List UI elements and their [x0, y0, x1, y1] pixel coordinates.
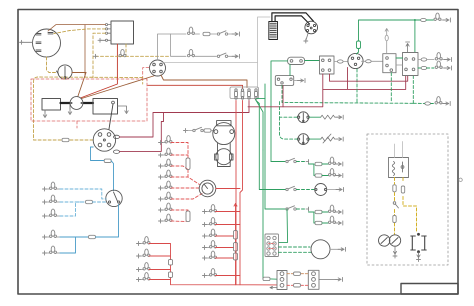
wire tan dashed F to control box: [54, 29, 105, 34]
gray lead from switch to top right: [164, 17, 271, 63]
battery cable (thick): [61, 102, 94, 104]
wire red control box down to solenoid: [79, 44, 117, 98]
wire brown vertical bus x85: [84, 25, 86, 77]
wire tan dashed bus y77.5: [34, 77, 143, 140]
wiper box top lead: [385, 29, 388, 54]
battery: [42, 99, 61, 111]
gray circuit: ignition/lighting switch circle: [150, 60, 166, 76]
bulkhead connector block: [265, 234, 279, 257]
battery ground: [44, 110, 46, 113]
headlamp dip row green dashed: [418, 67, 421, 69]
red links inside bulkhead connector: [269, 244, 275, 249]
overdrive solenoid twin circles: [379, 235, 401, 246]
generator G1: [33, 29, 61, 57]
green drop to bulkhead connector: [279, 209, 288, 242]
red dashed tail below box: [76, 121, 78, 128]
arrow lead left socket bottom: [270, 286, 277, 288]
wire brown warning lamp to bus: [72, 72, 86, 74]
panel lamp 1: [297, 112, 309, 123]
wire red flasher to bus: [216, 188, 240, 190]
ignition switch: [348, 53, 363, 68]
headlamp main row: [418, 59, 421, 61]
leads between sockets row3: [287, 284, 308, 286]
wire tan dashed generator to warning lamp: [47, 57, 58, 73]
wire green dashed relay to panel: [282, 85, 413, 103]
HT lead coil to distributor cap (thick pair): [272, 13, 314, 22]
wire maroon distributor lower terminal: [120, 113, 164, 152]
green fuse above ignition switch: [357, 41, 361, 49]
trailer socket right: [308, 270, 319, 289]
red verticals from fuse box: [235, 101, 237, 285]
inline fuse: [62, 138, 69, 141]
green dashed ignition drop: [356, 69, 358, 103]
wire brown ignition switch to solenoid: [80, 76, 155, 100]
dip box top feed: [406, 42, 410, 53]
red wires bottom-left cluster: [149, 244, 277, 285]
wire tan dashed fuse to distributor: [70, 139, 93, 141]
headlamp dip relay circle: [106, 190, 122, 206]
green row3: reverse lamps: [265, 84, 285, 209]
control box pins: [105, 24, 111, 42]
wire maroon lighting switch to dip box and down: [323, 74, 406, 89]
yellow chain right: [403, 178, 417, 233]
red dashed harness to flasher: [171, 143, 202, 222]
red dashed boundary box (engine bay): [31, 79, 147, 121]
ignition warning lamp: [57, 65, 73, 79]
wire blue dashed main beam: [60, 189, 106, 199]
leads between sockets row1: [287, 273, 308, 275]
ignition coil (hatched): [269, 22, 278, 40]
wire blue distributor to dip switch: [91, 147, 105, 161]
right lead of right socket: [319, 278, 341, 280]
green verticals from fuse box: [263, 150, 277, 279]
overdrive relay: [389, 158, 409, 178]
red lamp column mid-bottom (6 lamps): [203, 205, 217, 278]
wire blue solid row5 joins row4: [60, 237, 76, 253]
maroon ignition drop: [347, 68, 349, 90]
fuse in harness lower: [186, 211, 190, 222]
wiper-washer switch box: [383, 54, 396, 73]
heater blower motor: [311, 240, 330, 259]
wiper switch row: [184, 129, 188, 133]
coil ground lead: [118, 106, 127, 108]
generator feed lead: [20, 41, 33, 43]
flasher unit: [288, 57, 305, 64]
wire green top loop to right lamp: [359, 20, 421, 41]
maroon link under boxes: [330, 74, 408, 81]
gray row1: lamp,connector,switch: [188, 27, 195, 34]
wire brown feed to switch: [143, 68, 149, 77]
lighting switch: [320, 56, 335, 74]
gearbox switch bracket: [411, 233, 426, 252]
fuse box: [230, 87, 259, 99]
gray row2: [188, 49, 195, 56]
wire brown junction to solenoid: [78, 73, 87, 98]
panel rheostat 2: [309, 138, 320, 140]
blue lamp cluster left: [50, 182, 57, 189]
distributor cap: [305, 21, 318, 34]
wire green flasher loop to relay: [271, 61, 288, 162]
trailer socket left: [277, 271, 287, 290]
title block step: [401, 284, 458, 295]
wire tan dashed control box to side lamp row: [125, 44, 127, 56]
green dashed connector to heater motor: [279, 246, 311, 248]
wire gray switch top loop: [158, 34, 187, 60]
HT lead coil to distributor: [109, 104, 113, 129]
headlamp dip box: [403, 53, 419, 76]
red lamp cluster middle-left (8 lamps): [159, 136, 173, 223]
red wires mid-bottom: [216, 204, 241, 285]
dotted accessory box: [367, 134, 448, 265]
panel rheostat 1: [309, 116, 320, 118]
wire maroon distributor to fuse box (via y112.5): [120, 101, 250, 138]
wire green dashed feed to panel lamps: [280, 102, 298, 118]
ignition coil box: [93, 99, 118, 115]
green row1: tail lamps: [271, 161, 285, 163]
horn relay: [275, 76, 293, 86]
distributor: [93, 129, 115, 151]
yellow chain left: [394, 178, 396, 235]
wire tan dashed pin3 down to bus: [93, 33, 105, 77]
fuse in harness upper: [186, 158, 190, 170]
overdrive switch: [393, 202, 396, 205]
wiper motor: [213, 121, 235, 167]
wire blue solid row4 to dip switch: [60, 236, 88, 238]
wire blue dashed row3 joins row2: [60, 202, 85, 216]
green links between boxes: [396, 57, 403, 59]
control box (voltage regulator): [111, 21, 134, 44]
starter solenoid: [70, 97, 83, 110]
panel lamp 2: [297, 134, 309, 145]
red solid lamp cluster bottom-left: [137, 237, 151, 282]
green dashed below wiper box: [390, 73, 392, 103]
side lamp left: [119, 49, 126, 56]
wire blue dashed row2 to connector to dip: [60, 201, 85, 203]
solenoid ground: [69, 104, 71, 109]
wire green flasher to lighting switch: [305, 60, 320, 62]
page curl mark: [459, 178, 462, 181]
wire brown generator D to control box: [48, 25, 105, 31]
turn flasher unit: [199, 180, 216, 197]
green row2: boot lamp / horn: [260, 189, 286, 191]
